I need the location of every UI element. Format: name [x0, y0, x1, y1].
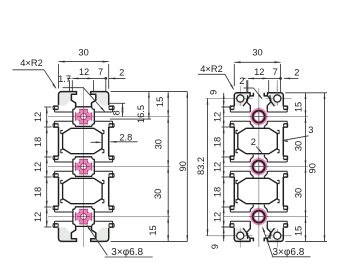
- svg-text:30: 30: [294, 141, 304, 151]
- svg-text:3: 3: [308, 125, 313, 135]
- svg-text:7: 7: [273, 67, 278, 77]
- svg-text:2: 2: [251, 137, 256, 147]
- svg-text:12: 12: [254, 67, 264, 77]
- dim 12 / 7 / 2 / 1.7 top (left drawing): [69, 80, 71, 91]
- svg-text:90: 90: [178, 161, 188, 171]
- dim 90 (left drawing): [186, 92, 188, 242]
- svg-text:2: 2: [294, 68, 299, 78]
- svg-text:30: 30: [252, 48, 262, 58]
- right-side dims of left profile: 8, 16.5, 15, 30, 30, 15: [111, 91, 188, 93]
- left profile: side slots: [53, 105, 58, 107]
- svg-text:30: 30: [78, 47, 88, 57]
- left profile: octagonal cavities: [63, 128, 103, 153]
- svg-text:15: 15: [155, 97, 165, 107]
- svg-text:2: 2: [119, 68, 124, 78]
- right profile: octagonal cavities: [238, 128, 277, 153]
- svg-text:8: 8: [112, 110, 122, 115]
- right profile: side slots: [230, 105, 234, 107]
- dim 30 top (right drawing): [233, 64, 235, 86]
- svg-text:12: 12: [33, 162, 43, 172]
- svg-text:2.8: 2.8: [119, 133, 132, 143]
- svg-text:12: 12: [213, 212, 223, 222]
- svg-text:9: 9: [210, 244, 220, 249]
- svg-text:18: 18: [33, 187, 43, 197]
- dim 30 top (left drawing): [58, 64, 60, 89]
- svg-text:18: 18: [213, 137, 223, 147]
- right-side dims of right profile: [285, 92, 327, 94]
- svg-text:12: 12: [33, 212, 43, 222]
- svg-text:30: 30: [153, 189, 163, 199]
- dim 90 (right drawing): [324, 93, 326, 242]
- svg-text:7: 7: [98, 67, 103, 77]
- svg-text:12: 12: [213, 162, 223, 172]
- svg-text:18: 18: [213, 187, 223, 197]
- left chain dims 12/18/12/18/12 (right drawing): [222, 106, 232, 108]
- left chain dims 12/18/12/18/12: [44, 106, 51, 108]
- leader 2-lip (right drawing): [244, 87, 254, 89]
- dim 12 / 7 / 2 / 2 top (right drawing): [246, 80, 248, 93]
- left profile: outer contour with top/bottom slots: [59, 92, 77, 107]
- svg-text:90: 90: [307, 163, 317, 173]
- svg-text:12: 12: [33, 112, 43, 122]
- svg-text:30: 30: [294, 188, 304, 198]
- svg-text:83.2: 83.2: [196, 157, 206, 175]
- right profile: gray corner shading: [236, 94, 248, 107]
- left profile: gray corner shading: [60, 93, 71, 106]
- svg-text:15: 15: [294, 102, 304, 112]
- svg-text:9: 9: [208, 90, 218, 95]
- left profile: centerlines: [83, 87, 85, 247]
- svg-text:1.7: 1.7: [58, 74, 71, 84]
- svg-text:12: 12: [79, 67, 89, 77]
- left profile: core blocks with pink cross holes: [73, 107, 94, 127]
- svg-text:3×φ6.8: 3×φ6.8: [111, 247, 143, 258]
- svg-text:2: 2: [239, 76, 244, 86]
- right profile: core circle cavities: [249, 107, 251, 112]
- svg-text:16.5: 16.5: [136, 105, 146, 123]
- leader 1.7 diagonal (left drawing): [63, 87, 84, 89]
- svg-text:4×R2: 4×R2: [200, 64, 222, 74]
- right profile: corner screw holes: [237, 95, 244, 102]
- svg-text:4×R2: 4×R2: [20, 58, 42, 68]
- svg-text:15: 15: [294, 226, 304, 236]
- dim 83.2 (right drawing): [207, 99, 209, 236]
- svg-text:30: 30: [154, 139, 164, 149]
- svg-text:12: 12: [213, 112, 223, 122]
- right profile: outer contour, corner blocks and slots: [234, 93, 253, 107]
- svg-text:18: 18: [33, 137, 43, 147]
- right profile: centerlines: [258, 88, 260, 247]
- svg-text:15: 15: [148, 225, 158, 235]
